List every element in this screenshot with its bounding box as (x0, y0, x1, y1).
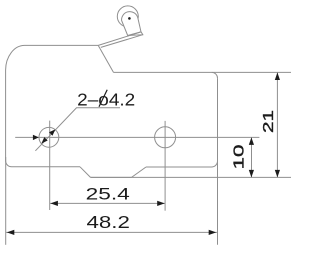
left hole circle (39, 127, 59, 147)
48.2 dim arrow right (209, 230, 217, 235)
leader arrow inside hole upper-right (49, 129, 55, 135)
right hole vertical centerline / 25.4 extension (164, 121, 166, 211)
48.2 right extension line (217, 157, 219, 245)
arrow at left hole west edge (33, 135, 39, 140)
10 dim arrow top (249, 137, 254, 145)
top extension line (21) (212, 71, 291, 73)
body edge: step diagonal (98, 45, 113, 72)
21 dim arrow bottom (275, 170, 280, 178)
10 dimension line (251, 137, 253, 177)
10 dim arrow bottom (249, 170, 254, 178)
body edge: top (25, 44, 99, 46)
body edge: notch right diagonal (132, 167, 147, 177)
holes horizontal centerline (15, 136, 259, 138)
25.4 dim arrow left (50, 201, 58, 206)
21 dimension line (276, 73, 278, 178)
body edge: left (5, 70, 7, 161)
right hole circle (155, 127, 176, 148)
25.4 dimension line (50, 202, 165, 204)
bottom extension line (10/21) (91, 176, 292, 178)
svg-text:48.2: 48.2 (87, 212, 130, 232)
21 dim arrow top (275, 73, 280, 81)
body corner: bottom-left (6, 161, 12, 167)
48.2 dimension line (6, 231, 217, 233)
lever bar (122, 12, 143, 36)
body corner: bottom-right (212, 161, 218, 167)
body edge: notch bottom (91, 176, 132, 178)
roller outer circle (117, 6, 138, 27)
lever arm lower edge (101, 35, 143, 48)
body edge: notch left diagonal (80, 167, 91, 178)
leader arrow inside hole lower-left (41, 137, 47, 143)
roller pin dot (128, 17, 131, 20)
body corner: top-right (212, 72, 218, 78)
svg-text:10: 10 (231, 144, 247, 169)
switch body outline (6, 45, 218, 177)
48.2 left extension line (5, 157, 7, 245)
lever arm upper edge (98, 32, 141, 46)
body edge: bottom-left horizontal (12, 166, 81, 168)
lever bar bottom edge (128, 32, 141, 36)
left hole vertical centerline / 25.4 extension (49, 121, 51, 210)
svg-text:25.4: 25.4 (86, 184, 130, 203)
body edge: right (217, 78, 219, 161)
body edge: bottom-right horizontal (146, 166, 212, 168)
leader line for 2-o4.2 (35, 108, 120, 151)
body edge: upper-right horizontal (114, 71, 213, 73)
48.2 dim arrow left (7, 230, 15, 235)
body corner: top-left (6, 45, 25, 70)
25.4 dim arrow right (157, 201, 165, 206)
svg-text:21: 21 (260, 110, 277, 133)
slash of diameter symbol (99, 90, 107, 107)
